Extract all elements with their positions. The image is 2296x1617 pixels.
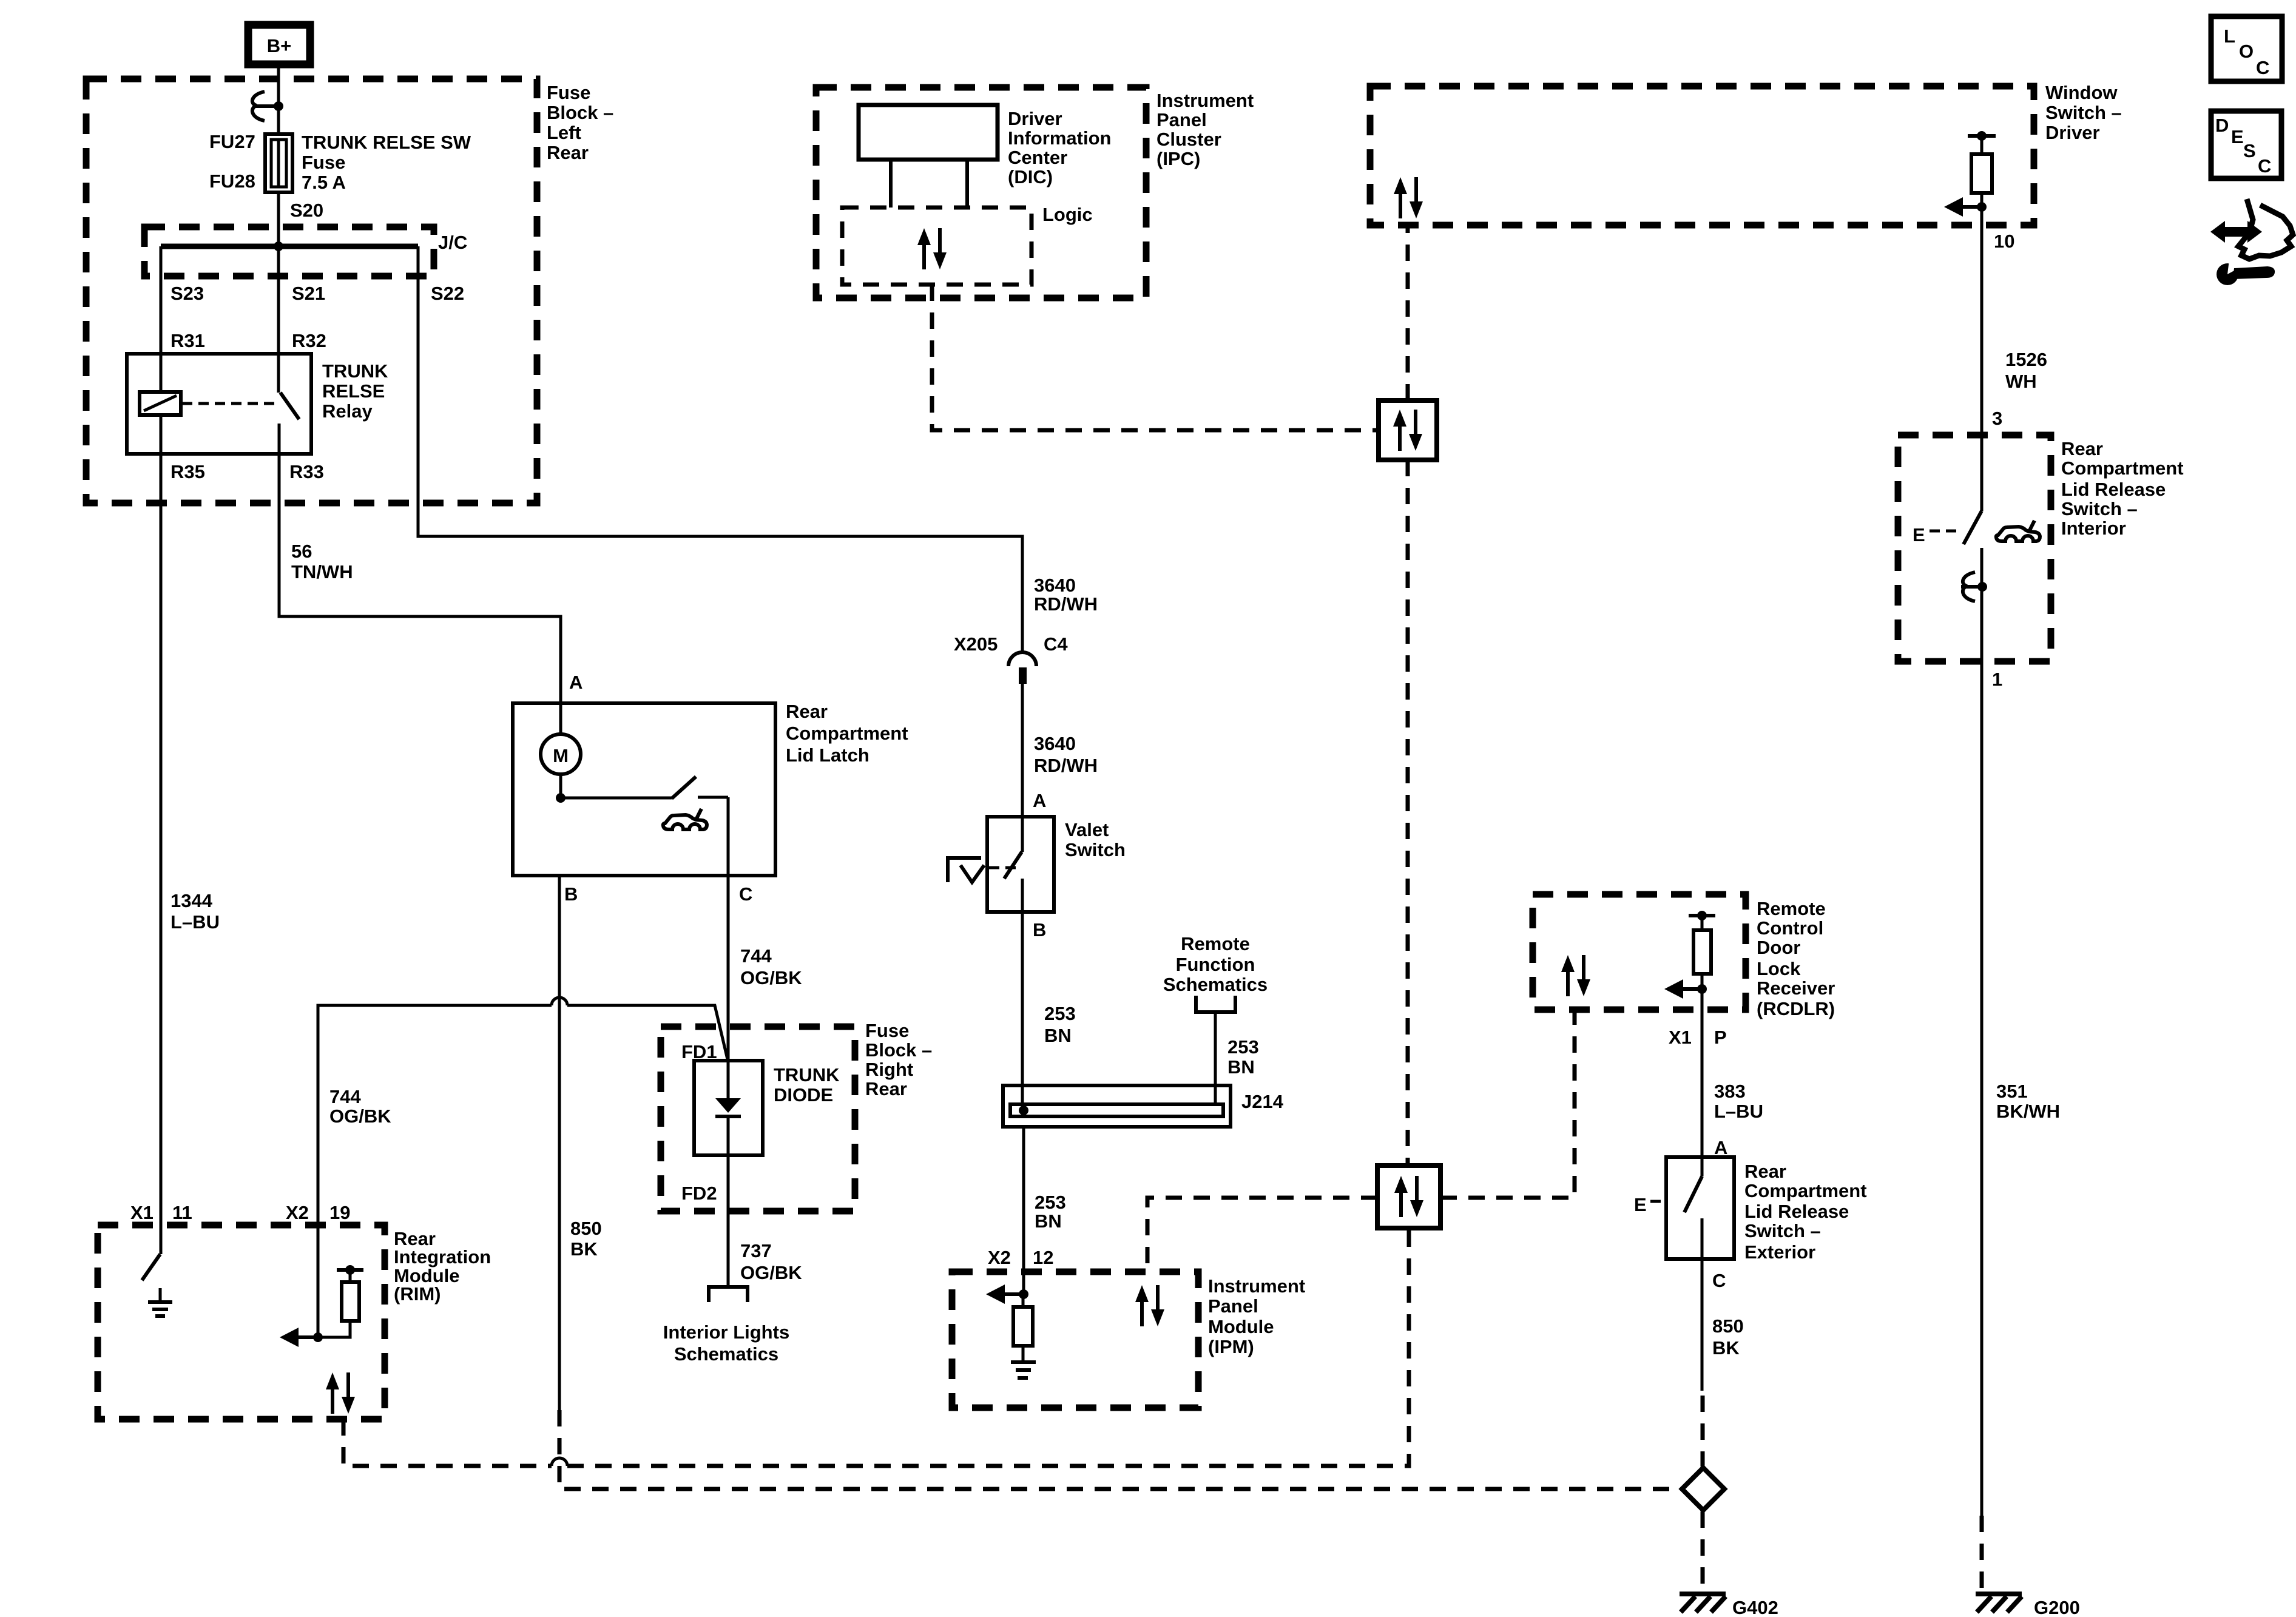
svg-text:Interior: Interior: [2061, 518, 2126, 539]
RCDLR name label: [1757, 898, 1835, 1019]
IPM input junction dot: [1019, 1289, 1028, 1299]
svg-text:Right: Right: [865, 1059, 913, 1080]
window switch serial arrows: [1394, 177, 1423, 218]
svg-text:Interior Lights: Interior Lights: [663, 1322, 789, 1343]
svg-text:A: A: [569, 672, 582, 693]
svg-text:850: 850: [1712, 1315, 1744, 1337]
trunk release relay box: [127, 354, 311, 454]
exterior switch E- actuator: [1634, 1194, 1665, 1215]
svg-text:C4: C4: [1044, 633, 1068, 655]
driver information center box: [859, 105, 998, 160]
svg-text:Fuse: Fuse: [865, 1020, 909, 1041]
svg-text:Left: Left: [547, 122, 581, 143]
svg-text:Driver: Driver: [2045, 122, 2100, 143]
wire label 3640 RD/WH (upper): [1034, 575, 1098, 615]
svg-text:383: 383: [1714, 1081, 1746, 1102]
exterior lid release switch box: [1666, 1157, 1734, 1259]
svg-text:P: P: [1714, 1027, 1727, 1048]
RIM X2-19 input wire: [317, 1225, 320, 1337]
off-page connector from remote function: [1196, 996, 1235, 1012]
svg-text:BN: BN: [1227, 1056, 1255, 1078]
RIM input junction dot: [313, 1332, 323, 1342]
svg-text:R31: R31: [171, 330, 205, 351]
interior lights schematics label: [663, 1322, 789, 1365]
wire S23 to relay coil R31: [160, 246, 163, 354]
svg-text:(RIM): (RIM): [394, 1283, 441, 1305]
svg-text:Logic: Logic: [1042, 204, 1093, 225]
svg-text:1526: 1526: [2005, 349, 2047, 370]
svg-text:O: O: [2239, 41, 2254, 62]
svg-text:744: 744: [329, 1086, 361, 1107]
J/C bus bar: [161, 244, 418, 249]
trunk diode label: [774, 1064, 840, 1106]
wire exterior switch C (850 BK): [1701, 1259, 1704, 1391]
junction dot S20/bus: [274, 241, 283, 251]
svg-text:L–BU: L–BU: [1714, 1101, 1763, 1122]
svg-text:DIODE: DIODE: [774, 1084, 833, 1106]
svg-text:A: A: [1714, 1137, 1727, 1158]
wire 850 BK dashed to G402 splice: [559, 1410, 1680, 1489]
valet switch contacts: [1004, 817, 1022, 912]
wire X205 to valet A (3640 RD/WH): [1021, 684, 1024, 817]
svg-text:Schematics: Schematics: [674, 1343, 778, 1365]
RCDLR pull-up resistor: [1689, 911, 1715, 1010]
window switch signal arrow: [1944, 197, 1982, 217]
svg-text:Rear: Rear: [786, 701, 828, 722]
svg-text:L: L: [2224, 25, 2235, 47]
valet switch box: [987, 817, 1054, 912]
svg-text:3: 3: [1992, 408, 2002, 429]
svg-text:BK: BK: [570, 1238, 598, 1260]
svg-text:Lid Release: Lid Release: [1744, 1201, 1849, 1222]
svg-text:X205: X205: [954, 633, 998, 655]
svg-text:Fuse: Fuse: [547, 82, 590, 103]
interior switch contacts: [1963, 511, 1982, 661]
svg-text:Lid Release: Lid Release: [2061, 479, 2166, 500]
svg-text:Compartment: Compartment: [786, 723, 908, 744]
connector X205 C4 symbol: [1008, 652, 1036, 684]
svg-text:M: M: [553, 745, 569, 766]
glove icon: [2238, 199, 2293, 259]
latch car icon: [663, 809, 707, 829]
svg-text:11: 11: [172, 1202, 192, 1223]
remote control door lock receiver dashed box: [1533, 894, 1746, 1010]
svg-text:7.5 A: 7.5 A: [302, 172, 346, 193]
latch switch: [561, 777, 728, 876]
svg-text:Compartment: Compartment: [2061, 457, 2184, 479]
svg-text:744: 744: [740, 945, 772, 967]
svg-text:Valet: Valet: [1065, 819, 1109, 840]
svg-text:Block –: Block –: [865, 1039, 932, 1061]
svg-text:Control: Control: [1757, 917, 1823, 939]
dashed wire diamond to G402: [1701, 1511, 1705, 1592]
svg-text:TN/WH: TN/WH: [291, 561, 353, 582]
valet switch name label: [1065, 819, 1126, 860]
svg-text:Cluster: Cluster: [1156, 129, 1221, 150]
svg-text:E: E: [2231, 126, 2244, 147]
svg-text:Panel: Panel: [1156, 109, 1207, 130]
svg-text:3640: 3640: [1034, 733, 1076, 754]
RCDLR junction dot: [1697, 984, 1707, 994]
IPM name label: [1208, 1275, 1305, 1357]
svg-text:RELSE: RELSE: [322, 380, 385, 402]
wire R33 to latch pin A (56 TN/WH): [279, 454, 561, 734]
serial data line RIM to splice box: [343, 1228, 1409, 1466]
rear compartment lid latch box: [513, 703, 775, 876]
svg-text:E: E: [1634, 1194, 1647, 1215]
svg-text:L–BU: L–BU: [171, 911, 220, 933]
serial data line box2 to IPM: [1147, 1198, 1377, 1272]
svg-text:TRUNK RELSE SW: TRUNK RELSE SW: [302, 132, 471, 153]
dashed wire to splice diamond: [1701, 1396, 1705, 1467]
wire 744 OG/BK to RIM X2-19: [318, 998, 728, 1225]
svg-text:S22: S22: [431, 283, 464, 304]
wire motor to junction: [559, 774, 562, 798]
svg-text:Rear: Rear: [865, 1078, 907, 1099]
ground G402: [1680, 1594, 1778, 1617]
wire label 253 BN (IPM): [1035, 1192, 1066, 1232]
svg-text:S: S: [2243, 140, 2256, 161]
wire label 1344 L-BU: [171, 890, 220, 933]
svg-text:Door: Door: [1757, 937, 1800, 958]
svg-text:Receiver: Receiver: [1757, 977, 1835, 999]
svg-text:X1: X1: [130, 1202, 154, 1223]
svg-text:351: 351: [1996, 1081, 2028, 1102]
instrument panel cluster dashed box: [816, 87, 1146, 298]
wire label 744 OG/BK (RIM side): [329, 1086, 391, 1127]
IPM serial data arrows: [1135, 1285, 1164, 1326]
svg-text:J/C: J/C: [438, 232, 467, 253]
ground G200: [1976, 1594, 2080, 1617]
svg-text:253: 253: [1044, 1003, 1076, 1024]
svg-text:OG/BK: OG/BK: [740, 1262, 802, 1283]
wrench icon: [2217, 260, 2275, 285]
svg-text:Switch: Switch: [1065, 839, 1126, 860]
in-line current interrupt symbol: [252, 92, 283, 121]
svg-text:Switch –: Switch –: [2045, 102, 2122, 123]
fuse FU27/FU28 TRUNK RELSE SW 7.5 A: [265, 134, 292, 192]
svg-text:B: B: [1033, 919, 1046, 940]
svg-text:BK/WH: BK/WH: [1996, 1101, 2060, 1122]
latch motor M: [541, 734, 581, 774]
junction dot latch: [556, 793, 566, 803]
window switch resistor: [1968, 131, 1996, 225]
svg-text:Exterior: Exterior: [1744, 1241, 1815, 1263]
RIM signal arrow: [280, 1328, 318, 1347]
fuse value label: [302, 132, 471, 193]
relay name label: [322, 360, 388, 422]
svg-text:737: 737: [740, 1240, 772, 1261]
serial data line box1 to box2: [1406, 460, 1410, 1166]
svg-text:TRUNK: TRUNK: [322, 360, 388, 382]
svg-text:R33: R33: [289, 461, 324, 482]
wire label 3640 RD/WH (lower): [1034, 733, 1098, 776]
relay coil-to-switch dashed link: [182, 402, 276, 405]
svg-text:Switch –: Switch –: [1744, 1220, 1821, 1241]
svg-text:A: A: [1033, 790, 1046, 811]
fuse block left rear dashed box: [86, 79, 537, 503]
IPM signal ground: [1011, 1362, 1036, 1378]
svg-text:Driver: Driver: [1008, 108, 1062, 129]
svg-text:C: C: [2256, 57, 2269, 78]
interior switch interrupt symbol: [1961, 572, 1987, 601]
wire label 744 OG/BK (latch C): [740, 945, 802, 988]
exterior switch name label: [1744, 1161, 1867, 1263]
svg-text:253: 253: [1227, 1036, 1259, 1058]
svg-text:12: 12: [1033, 1247, 1053, 1268]
relay coil: [140, 354, 181, 454]
DIC to logic stubs: [891, 160, 967, 208]
LOC legend box: [2211, 16, 2282, 81]
wire R35 to RIM X1-11 (1344 L-BU): [160, 454, 163, 1225]
svg-text:G200: G200: [2034, 1597, 2080, 1617]
wire fuse to splice S20: [277, 192, 280, 246]
wire label 850 BK: [570, 1218, 602, 1260]
svg-text:C: C: [739, 883, 752, 905]
wire S21 to relay switch R32: [277, 246, 280, 354]
wire latch C 744 OG/BK to diode: [727, 876, 730, 1061]
RIM ground switch: [142, 1225, 161, 1280]
svg-text:R32: R32: [292, 330, 326, 351]
svg-text:TRUNK: TRUNK: [774, 1064, 840, 1085]
svg-text:Center: Center: [1008, 147, 1067, 168]
serial data box 2: [1377, 1166, 1440, 1228]
exterior switch contacts: [1684, 1157, 1702, 1259]
svg-text:S23: S23: [171, 283, 204, 304]
window switch junction dot: [1977, 202, 1987, 212]
DESC legend box: [2211, 111, 2281, 178]
RCDLR signal arrow: [1664, 979, 1702, 999]
svg-text:FU28: FU28: [209, 170, 255, 192]
rear integration module dashed box: [98, 1225, 385, 1419]
wire label 56 TN/WH: [291, 541, 353, 582]
svg-text:(IPM): (IPM): [1208, 1336, 1254, 1357]
serial data box 1: [1379, 400, 1437, 460]
window switch driver dashed box: [1370, 86, 2034, 225]
DIC name label: [1008, 108, 1112, 187]
IPM signal arrow: [986, 1284, 1024, 1304]
relay switch contacts: [279, 354, 299, 454]
svg-text:Rear: Rear: [1744, 1161, 1786, 1182]
battery feed B+ terminal: [248, 25, 310, 64]
wire B+ to fuse FU27: [277, 64, 280, 134]
svg-text:Remote: Remote: [1757, 898, 1826, 919]
RIM name label: [394, 1228, 491, 1305]
latch name label: [786, 701, 908, 766]
RIM pull-up resistor: [318, 1265, 363, 1337]
fuse block right rear dashed box: [661, 1027, 855, 1211]
svg-text:Remote: Remote: [1181, 933, 1250, 954]
serial data line box2 to RCDLR: [1440, 1010, 1575, 1198]
svg-text:3640: 3640: [1034, 575, 1076, 596]
splice pack J214: [1003, 1085, 1231, 1127]
svg-text:E: E: [1913, 524, 1925, 545]
svg-text:J214: J214: [1241, 1091, 1284, 1112]
junction block J/C dashed box: [144, 227, 434, 276]
off-page connector to interior lights: [709, 1287, 748, 1302]
trunk diode box: [694, 1061, 763, 1155]
wire 737 OG/BK: [727, 1155, 730, 1287]
svg-text:56: 56: [291, 541, 312, 562]
valet momentary symbol: [948, 858, 1017, 882]
svg-text:Module: Module: [1208, 1316, 1274, 1337]
double arrow icon: [2210, 221, 2262, 243]
svg-text:850: 850: [570, 1218, 602, 1239]
svg-text:X1: X1: [1669, 1027, 1692, 1048]
svg-text:C: C: [2258, 155, 2271, 177]
svg-text:Rear: Rear: [547, 142, 589, 163]
svg-text:RD/WH: RD/WH: [1034, 755, 1098, 776]
svg-text:Panel: Panel: [1208, 1295, 1258, 1317]
wire remote function to J214 (253 BN): [1214, 1012, 1217, 1104]
svg-text:Relay: Relay: [322, 400, 373, 422]
svg-text:R35: R35: [171, 461, 205, 482]
logic serial data arrows: [917, 228, 947, 269]
fuse block right rear label: [865, 1020, 932, 1099]
svg-text:D: D: [2215, 115, 2229, 136]
svg-text:Window: Window: [2045, 82, 2118, 103]
IPM pull resistor: [1013, 1294, 1033, 1360]
svg-text:Block –: Block –: [547, 102, 613, 123]
interior switch car icon: [1996, 521, 2040, 541]
svg-text:Information: Information: [1008, 127, 1112, 149]
svg-text:X2: X2: [286, 1202, 309, 1223]
fuse block left rear label: [547, 82, 613, 163]
interior lid release switch dashed box: [1898, 435, 2051, 661]
svg-text:(IPC): (IPC): [1156, 148, 1200, 169]
svg-text:10: 10: [1994, 231, 2014, 252]
interior switch name label: [2061, 438, 2184, 539]
svg-text:S20: S20: [290, 200, 323, 221]
RIM signal ground: [148, 1288, 172, 1316]
interior switch E-- actuator: [1913, 524, 1959, 545]
svg-text:G402: G402: [1732, 1597, 1778, 1617]
svg-text:Instrument: Instrument: [1156, 90, 1254, 111]
svg-text:Instrument: Instrument: [1208, 1275, 1305, 1297]
svg-text:FD2: FD2: [681, 1183, 717, 1204]
wire S22 to valet switch (3640 RD/WH): [418, 246, 1022, 653]
wire label 253 BN (valet): [1044, 1003, 1076, 1046]
svg-text:Lock: Lock: [1757, 958, 1801, 979]
svg-text:OG/BK: OG/BK: [740, 967, 802, 988]
svg-text:Compartment: Compartment: [1744, 1180, 1867, 1201]
wire label 383 L-BU: [1714, 1081, 1763, 1122]
RIM serial data arrows: [326, 1372, 355, 1414]
svg-text:1: 1: [1992, 669, 2002, 690]
svg-text:Rear: Rear: [2061, 438, 2103, 459]
dashed wire to G200: [1980, 1516, 1984, 1592]
svg-text:BN: BN: [1044, 1025, 1072, 1046]
svg-text:19: 19: [329, 1202, 350, 1223]
svg-text:Function: Function: [1176, 954, 1255, 975]
wire latch B (850 BK) solid: [558, 876, 561, 1410]
svg-text:253: 253: [1035, 1192, 1066, 1213]
svg-text:C: C: [1712, 1270, 1726, 1291]
svg-text:OG/BK: OG/BK: [329, 1106, 391, 1127]
svg-text:(RCDLR): (RCDLR): [1757, 998, 1835, 1019]
svg-text:Schematics: Schematics: [1163, 974, 1268, 995]
wire label 253 BN (remote function): [1227, 1036, 1259, 1078]
svg-text:B+: B+: [267, 35, 292, 56]
splice diamond: [1682, 1468, 1724, 1510]
wire valet B to J214 (253 BN): [1021, 912, 1024, 1104]
serial data line DIC to box1: [932, 285, 1379, 430]
wire interior switch to G200 (351 BK/WH): [1980, 661, 1984, 1516]
serial data line box1 to window switch: [1406, 225, 1410, 400]
svg-text:FU27: FU27: [209, 131, 255, 152]
svg-text:1344: 1344: [171, 890, 213, 911]
wire J214 to IPM X2-12 (253 BN): [1022, 1127, 1025, 1293]
RCDLR serial arrows: [1561, 955, 1590, 996]
instrument panel module dashed box: [952, 1272, 1198, 1408]
trunk diode symbol: [715, 1061, 741, 1155]
IPC name label: [1156, 90, 1254, 169]
wire label 737 OG/BK: [740, 1240, 802, 1283]
svg-text:WH: WH: [2005, 371, 2037, 392]
wire label 1526 WH: [2005, 349, 2047, 392]
wire label 850 BK (exterior): [1712, 1315, 1744, 1359]
wire label 351 BK/WH: [1996, 1081, 2060, 1122]
svg-text:BK: BK: [1712, 1337, 1740, 1359]
wire RCDLR to exterior switch (383 L-BU): [1701, 1010, 1704, 1157]
wire window switch to interior switch (1526 WH): [1980, 225, 1984, 511]
svg-text:S21: S21: [292, 283, 325, 304]
window switch name label: [2045, 82, 2122, 143]
svg-text:Switch –: Switch –: [2061, 498, 2138, 519]
svg-text:Fuse: Fuse: [302, 152, 345, 173]
svg-text:(DIC): (DIC): [1008, 166, 1053, 187]
remote function schematics label: [1163, 933, 1268, 995]
logic dashed box: [842, 208, 1032, 285]
svg-text:X2: X2: [988, 1247, 1011, 1268]
svg-text:B: B: [564, 883, 578, 905]
svg-text:Lid Latch: Lid Latch: [786, 744, 869, 766]
svg-text:RD/WH: RD/WH: [1034, 593, 1098, 615]
svg-text:Integration: Integration: [394, 1246, 491, 1268]
svg-text:BN: BN: [1035, 1210, 1062, 1232]
